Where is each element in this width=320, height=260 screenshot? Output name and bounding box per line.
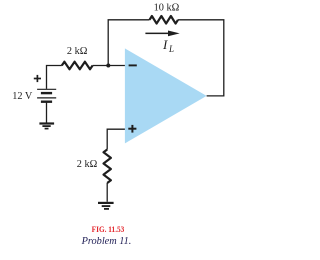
svg-text:L: L bbox=[168, 44, 174, 54]
resistor R feedback 10 kOhm zigzag bbox=[150, 16, 179, 24]
ground load bbox=[98, 203, 114, 209]
resistor R2 2 kOhm vertical zigzag bbox=[104, 150, 111, 184]
wire top right and output stub bbox=[178, 20, 224, 96]
battery V 12V bbox=[37, 89, 56, 101]
svg-text:12 V: 12 V bbox=[12, 91, 33, 102]
wire battery to resistor bbox=[47, 66, 62, 89]
resistor R1 2 kOhm zigzag bbox=[62, 62, 93, 70]
svg-text:Problem 11.: Problem 11. bbox=[81, 236, 132, 247]
wire inverting input bbox=[93, 65, 125, 67]
op-amp noninverting pin plus sign bbox=[128, 125, 136, 133]
op-amp U1 bbox=[125, 48, 207, 143]
wire resistor to ground bbox=[106, 183, 108, 202]
svg-text:10 kΩ: 10 kΩ bbox=[154, 3, 180, 14]
svg-text:FIG. 11.53: FIG. 11.53 bbox=[92, 224, 125, 234]
battery plus sign bbox=[34, 75, 41, 82]
ground battery bbox=[39, 124, 54, 129]
wire noninverting input bbox=[107, 129, 125, 149]
node junction dot bbox=[106, 64, 110, 68]
wire feedback vertical and top left segment bbox=[108, 20, 149, 66]
svg-text:2 kΩ: 2 kΩ bbox=[67, 46, 88, 57]
op-amp inverting pin minus sign bbox=[129, 64, 137, 66]
current arrow IL bbox=[145, 31, 179, 37]
svg-text:I: I bbox=[162, 37, 168, 52]
svg-text:2 kΩ: 2 kΩ bbox=[77, 159, 98, 170]
wire battery to ground bbox=[46, 102, 48, 123]
